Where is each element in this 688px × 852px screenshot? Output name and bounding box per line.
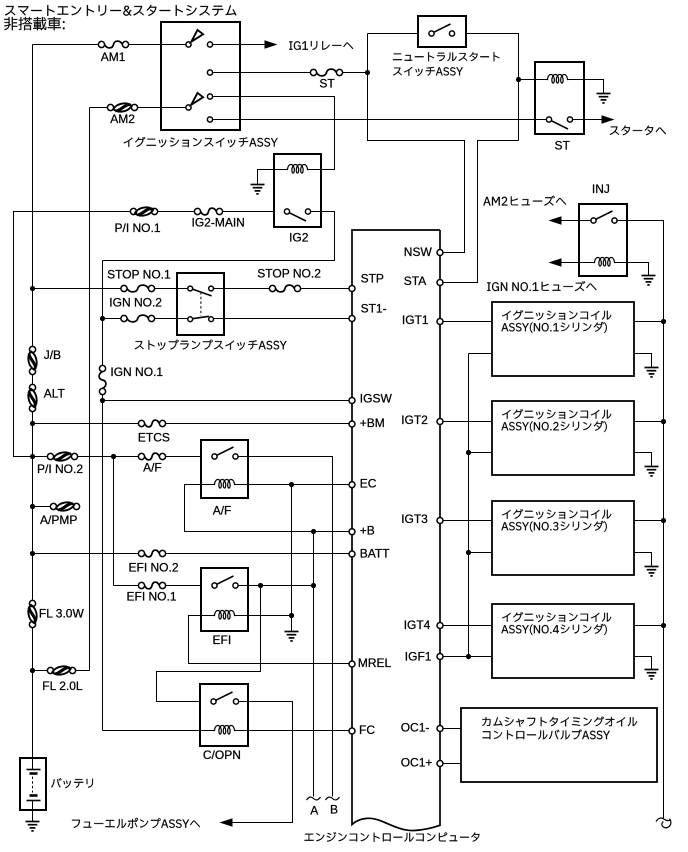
svg-text:IGT1: IGT1 bbox=[402, 313, 429, 327]
wire neutral start loop top-left bbox=[368, 33, 419, 35]
fuse STOP NO.2 bbox=[269, 285, 275, 291]
EFI relay coil bbox=[201, 615, 214, 617]
wire EFI NO.1 row bbox=[114, 585, 139, 587]
IG2 relay coil bbox=[274, 169, 287, 171]
junction IGN NO.2 tap bbox=[100, 316, 105, 321]
INJ relay switch bbox=[591, 218, 596, 223]
wire IG1 relay output bbox=[213, 44, 265, 46]
ignition coil ASSY NO.3 bbox=[492, 501, 634, 575]
svg-text:A/F: A/F bbox=[213, 503, 232, 517]
pin MREL bbox=[349, 661, 355, 667]
wire coil1 ground bbox=[635, 354, 652, 368]
wire A/F fuse row bbox=[114, 456, 139, 458]
junction ST fuse node bbox=[365, 70, 370, 75]
svg-text:EFI NO.1: EFI NO.1 bbox=[127, 590, 177, 604]
wire coil2 power bbox=[635, 421, 664, 423]
junction A wire EFI tap bbox=[311, 583, 316, 588]
pin EC bbox=[349, 482, 355, 488]
wire AM2 row bbox=[90, 107, 108, 109]
wire P/I NO.2 row bbox=[33, 456, 48, 458]
ground battery bbox=[26, 822, 40, 831]
junction IGF coil4 bbox=[466, 654, 471, 659]
svg-text:FC: FC bbox=[359, 723, 375, 737]
wire IG2 switch output bbox=[103, 212, 335, 261]
pin IGT1 bbox=[437, 319, 443, 325]
junction FL 2.0L tap bbox=[30, 668, 35, 673]
fuse ETCS bbox=[138, 420, 144, 426]
wire coil2 ground bbox=[635, 453, 652, 467]
wire EFI out to C/OPN switch bbox=[157, 586, 261, 702]
wire coil4 ground bbox=[635, 657, 652, 670]
wire rail x89 bbox=[89, 108, 91, 671]
svg-text:IGN NO.1: IGN NO.1 bbox=[110, 365, 163, 379]
fusible link AM2 bbox=[107, 104, 113, 110]
valve camshaft timing oil control valve ASSY bbox=[461, 708, 657, 782]
pin IGT2 bbox=[437, 419, 443, 425]
wire OC1+ row bbox=[443, 763, 461, 765]
fusible link A/PMP bbox=[50, 503, 56, 509]
EFI relay switch bbox=[212, 583, 217, 588]
wire IGT1 row bbox=[443, 321, 492, 323]
fuse ST bbox=[310, 69, 316, 75]
junction IGSW tap bbox=[100, 398, 105, 403]
wire A/F coil right to EC bbox=[248, 484, 350, 486]
junction EC ground vertical top bbox=[289, 482, 294, 487]
junction right rail coil1 bbox=[661, 319, 666, 324]
fusible link FL 2.0L bbox=[47, 667, 53, 673]
svg-text:EFI: EFI bbox=[213, 633, 232, 647]
wire coil3 ground bbox=[635, 553, 652, 567]
wire IGT4 row bbox=[443, 625, 492, 627]
wire ground vertical x291 bbox=[291, 485, 293, 632]
svg-text:STA: STA bbox=[404, 274, 426, 288]
svg-text:ST: ST bbox=[555, 139, 571, 153]
svg-text:B: B bbox=[330, 803, 338, 817]
junction right rail coil3 bbox=[661, 518, 666, 523]
wire neutral start loop left bbox=[368, 34, 465, 253]
pin STA bbox=[437, 280, 443, 286]
junction IGF coil3 bbox=[466, 550, 471, 555]
pin STP bbox=[349, 286, 355, 292]
A/F relay coil bbox=[201, 484, 214, 486]
wire IGN NO.2 row bbox=[103, 318, 122, 320]
ignition switch pole2 throw1 bbox=[207, 94, 212, 99]
wire coil4 IGF branch bbox=[469, 656, 492, 658]
ignition switch throw ST bbox=[207, 70, 212, 75]
pin OC1- bbox=[437, 726, 443, 732]
svg-text:FL 2.0L: FL 2.0L bbox=[42, 679, 83, 693]
svg-text:STOP NO.2: STOP NO.2 bbox=[257, 267, 321, 281]
svg-text:ETCS: ETCS bbox=[138, 431, 170, 445]
wire coil3 IGF branch bbox=[469, 552, 492, 554]
wire coil3 power bbox=[635, 520, 664, 522]
svg-text:IGF1: IGF1 bbox=[405, 649, 432, 663]
relay IG2 bbox=[274, 154, 321, 227]
switch stop lamp switch ASSY bbox=[177, 273, 224, 335]
svg-text:IGN NO.2: IGN NO.2 bbox=[109, 296, 162, 310]
arrow to fuel pump bbox=[220, 818, 233, 826]
wire IGT2 row bbox=[443, 421, 492, 423]
ignition switch pole2 throw2 bbox=[207, 117, 212, 122]
wire EFI switch output bbox=[239, 585, 314, 587]
arrow to IG1 relay bbox=[265, 40, 278, 48]
wire A wire bbox=[313, 532, 315, 797]
switch neutral start switch ASSY bbox=[418, 16, 466, 47]
relay A/F bbox=[201, 440, 248, 498]
fusible link FL 3.0W bbox=[29, 600, 35, 606]
ground INJ relay bbox=[642, 276, 656, 285]
switch ignition switch ASSY bbox=[161, 22, 240, 130]
junction ST relay coil node bbox=[516, 77, 521, 82]
relay EFI bbox=[201, 568, 248, 631]
arrow to AM2 fuse bbox=[549, 216, 562, 224]
fusible link J/B bbox=[29, 346, 35, 352]
wire BATT row bbox=[33, 553, 139, 555]
wire INJ switch output to right rail bbox=[618, 221, 664, 819]
wire STOP NO.1 row bbox=[33, 288, 122, 290]
wave break A bbox=[307, 797, 321, 800]
pin +B bbox=[349, 529, 355, 535]
wire IG2 coil to ground bbox=[258, 170, 274, 185]
battery bbox=[20, 758, 46, 810]
junction P/I NO.2 tap bbox=[30, 454, 35, 459]
wire IGF1 row bbox=[443, 656, 492, 658]
wire C/OPN coil feed bbox=[103, 730, 200, 732]
A/F relay switch bbox=[212, 454, 217, 459]
ground EFI relay bbox=[285, 632, 299, 641]
svg-text:OC1-: OC1- bbox=[401, 721, 430, 735]
junction A/PMP tap bbox=[30, 504, 35, 509]
svg-text:STP: STP bbox=[361, 272, 384, 286]
wire coil2 IGF branch bbox=[469, 452, 492, 454]
arrow to starter bbox=[602, 115, 615, 123]
svg-text:P/I NO.2: P/I NO.2 bbox=[37, 462, 83, 476]
svg-text:J/B: J/B bbox=[44, 348, 61, 362]
wire rail x32 lower bbox=[32, 409, 34, 604]
arrow to IGN NO.1 fuse bbox=[549, 258, 562, 266]
wire ignition to ST relay switch bbox=[213, 119, 549, 121]
wire C/OPN coil to FC bbox=[248, 730, 350, 732]
wire INJ switch to AM2 fuse bbox=[562, 220, 591, 222]
title text bbox=[5, 5, 236, 16]
ignition switch pole2 common bbox=[186, 105, 191, 110]
svg-text:P/I NO.1: P/I NO.1 bbox=[115, 221, 161, 235]
ignition coil ASSY NO.4 bbox=[492, 604, 634, 678]
wire starter output bbox=[573, 119, 602, 121]
wire STA branch bbox=[443, 141, 519, 283]
wire coil4 power bbox=[635, 625, 664, 627]
junction right rail coil2 bbox=[661, 419, 666, 424]
wire A/F coil left loop to +B bbox=[185, 485, 350, 532]
ground ST relay bbox=[597, 94, 611, 103]
pin IGT4 bbox=[437, 623, 443, 629]
svg-text:ST: ST bbox=[319, 76, 335, 90]
fuse EFI NO.1 bbox=[138, 582, 144, 588]
junction right rail coil4 bbox=[661, 623, 666, 628]
ground coil2 bbox=[645, 467, 659, 476]
fuse EFI NO.2 bbox=[138, 550, 144, 556]
pin IGF1 bbox=[437, 654, 443, 660]
C/OPN relay coil bbox=[200, 730, 214, 732]
wire coil1 power bbox=[635, 321, 664, 323]
pin OC1+ bbox=[437, 761, 443, 767]
svg-text:ST1-: ST1- bbox=[361, 302, 387, 316]
svg-text:IG2-MAIN: IG2-MAIN bbox=[192, 216, 245, 230]
svg-text:OC1+: OC1+ bbox=[401, 755, 433, 769]
ignition switch pole1 throw IG1 bbox=[207, 42, 212, 47]
pin IGSW bbox=[349, 398, 355, 404]
ignition coil ASSY NO.1 bbox=[492, 302, 634, 376]
ground coil1 bbox=[645, 368, 659, 377]
junction IGF coil2 bbox=[466, 450, 471, 455]
C/OPN relay switch bbox=[211, 699, 216, 704]
wire ST fuse row bbox=[213, 72, 311, 74]
computer ECU bbox=[352, 230, 440, 831]
relay C/OPN bbox=[200, 684, 248, 746]
svg-text:IGSW: IGSW bbox=[360, 392, 393, 406]
wire STA stub bbox=[443, 282, 478, 284]
wire STOP NO.2 row bbox=[212, 288, 270, 290]
junction EFI to C/OPN bbox=[258, 583, 263, 588]
ST relay coil bbox=[535, 79, 547, 81]
svg-text:EFI NO.2: EFI NO.2 bbox=[129, 561, 179, 575]
svg-text:+B: +B bbox=[360, 523, 375, 537]
svg-text:BATT: BATT bbox=[360, 546, 390, 560]
junction STOP NO.1 tap bbox=[30, 286, 35, 291]
junction A/F row tap bbox=[111, 454, 116, 459]
wire IGF vertical bbox=[468, 354, 470, 657]
fuse IGN NO.2 bbox=[121, 315, 127, 321]
fuse IGN NO.1 bbox=[99, 365, 105, 371]
ignition switch pole1 common bbox=[186, 42, 191, 47]
wire NSW stub bbox=[443, 252, 465, 254]
wire EFI NO.1 feed bbox=[113, 457, 115, 586]
relay INJ bbox=[579, 204, 627, 276]
wire AM1 row bbox=[33, 44, 99, 46]
wire coil node to ST relay bbox=[519, 79, 535, 81]
wire IGT3 row bbox=[443, 520, 492, 522]
wire A/F switch output to B wire bbox=[239, 457, 333, 797]
svg-text:IGT2: IGT2 bbox=[401, 413, 428, 427]
junction ETCS tap bbox=[30, 421, 35, 426]
node battery positive rail bbox=[32, 45, 34, 350]
wire rail x102 IGN bbox=[102, 261, 104, 369]
wire neutral start loop right bbox=[466, 34, 519, 141]
wire rail x32 bottom bbox=[32, 625, 34, 759]
wire C/OPN switch output to fuel pump bbox=[233, 702, 293, 823]
svg-text:IGT3: IGT3 bbox=[401, 512, 428, 526]
junction A wire top bbox=[311, 529, 316, 534]
pin ST1- bbox=[349, 316, 355, 322]
svg-text:INJ: INJ bbox=[592, 182, 610, 196]
pin NSW bbox=[437, 250, 443, 256]
ground coil3 bbox=[645, 567, 659, 576]
svg-text:IGT4: IGT4 bbox=[404, 618, 431, 632]
ST relay switch bbox=[546, 117, 551, 122]
svg-text:STOP NO.1: STOP NO.1 bbox=[107, 267, 171, 281]
wire A/PMP stub bbox=[33, 506, 51, 508]
junction EFI coil tap bbox=[289, 613, 294, 618]
wire EFI coil left to MREL bbox=[189, 616, 350, 664]
IG2 relay switch bbox=[284, 209, 289, 214]
fuse IG2-MAIN bbox=[194, 208, 200, 214]
wire FL 2.0L row bbox=[33, 670, 48, 672]
svg-text:AM1: AM1 bbox=[101, 50, 126, 64]
svg-text:C/OPN: C/OPN bbox=[203, 748, 241, 762]
pin +BM bbox=[349, 421, 355, 427]
wire OC1- row bbox=[443, 728, 461, 730]
svg-text:MREL: MREL bbox=[358, 656, 392, 670]
fuse STOP NO.1 bbox=[121, 285, 127, 291]
fusible link P/I NO.2 bbox=[47, 453, 53, 459]
svg-text:+BM: +BM bbox=[360, 416, 385, 430]
wave break B bbox=[326, 797, 340, 800]
svg-text:ALT: ALT bbox=[44, 387, 66, 401]
svg-text:A/F: A/F bbox=[143, 461, 162, 475]
ground coil4 bbox=[645, 670, 659, 679]
svg-text:FL 3.0W: FL 3.0W bbox=[39, 607, 85, 621]
ignition coil ASSY NO.2 bbox=[492, 401, 634, 475]
svg-text:AM2: AM2 bbox=[110, 112, 135, 126]
svg-text:NSW: NSW bbox=[404, 245, 433, 259]
wire ST1- row bbox=[212, 318, 350, 320]
fuse AM1 bbox=[98, 41, 104, 47]
wire ST relay coil to ground bbox=[584, 80, 604, 94]
wire coil1 IGF branch bbox=[469, 353, 492, 355]
INJ relay coil bbox=[579, 262, 594, 264]
svg-text:IG2: IG2 bbox=[289, 230, 309, 244]
wire IGSW row bbox=[103, 400, 350, 402]
junction BATT tap bbox=[30, 551, 35, 556]
wave break right rail bbox=[656, 818, 671, 828]
pin BATT bbox=[349, 551, 355, 557]
wire INJ coil to ground bbox=[627, 263, 649, 276]
pin FC bbox=[349, 728, 355, 734]
wire INJ coil to IGN NO.1 fuse bbox=[562, 262, 579, 264]
fusible link P/I NO.1 bbox=[130, 208, 136, 214]
svg-text:EC: EC bbox=[360, 476, 377, 490]
wire rail x32 mid bbox=[32, 372, 34, 388]
wire ignition to IG2 coil bbox=[213, 97, 335, 170]
fusible link ALT bbox=[29, 384, 35, 390]
fuse A/F bbox=[138, 453, 144, 459]
pin IGT3 bbox=[437, 518, 443, 524]
svg-text:A: A bbox=[310, 804, 318, 818]
wire P/I NO.1 row bbox=[14, 212, 131, 457]
ground IG2 relay bbox=[251, 185, 265, 194]
relay ST bbox=[535, 62, 584, 134]
svg-text:A/PMP: A/PMP bbox=[40, 513, 77, 527]
wire ETCS row bbox=[33, 423, 139, 425]
